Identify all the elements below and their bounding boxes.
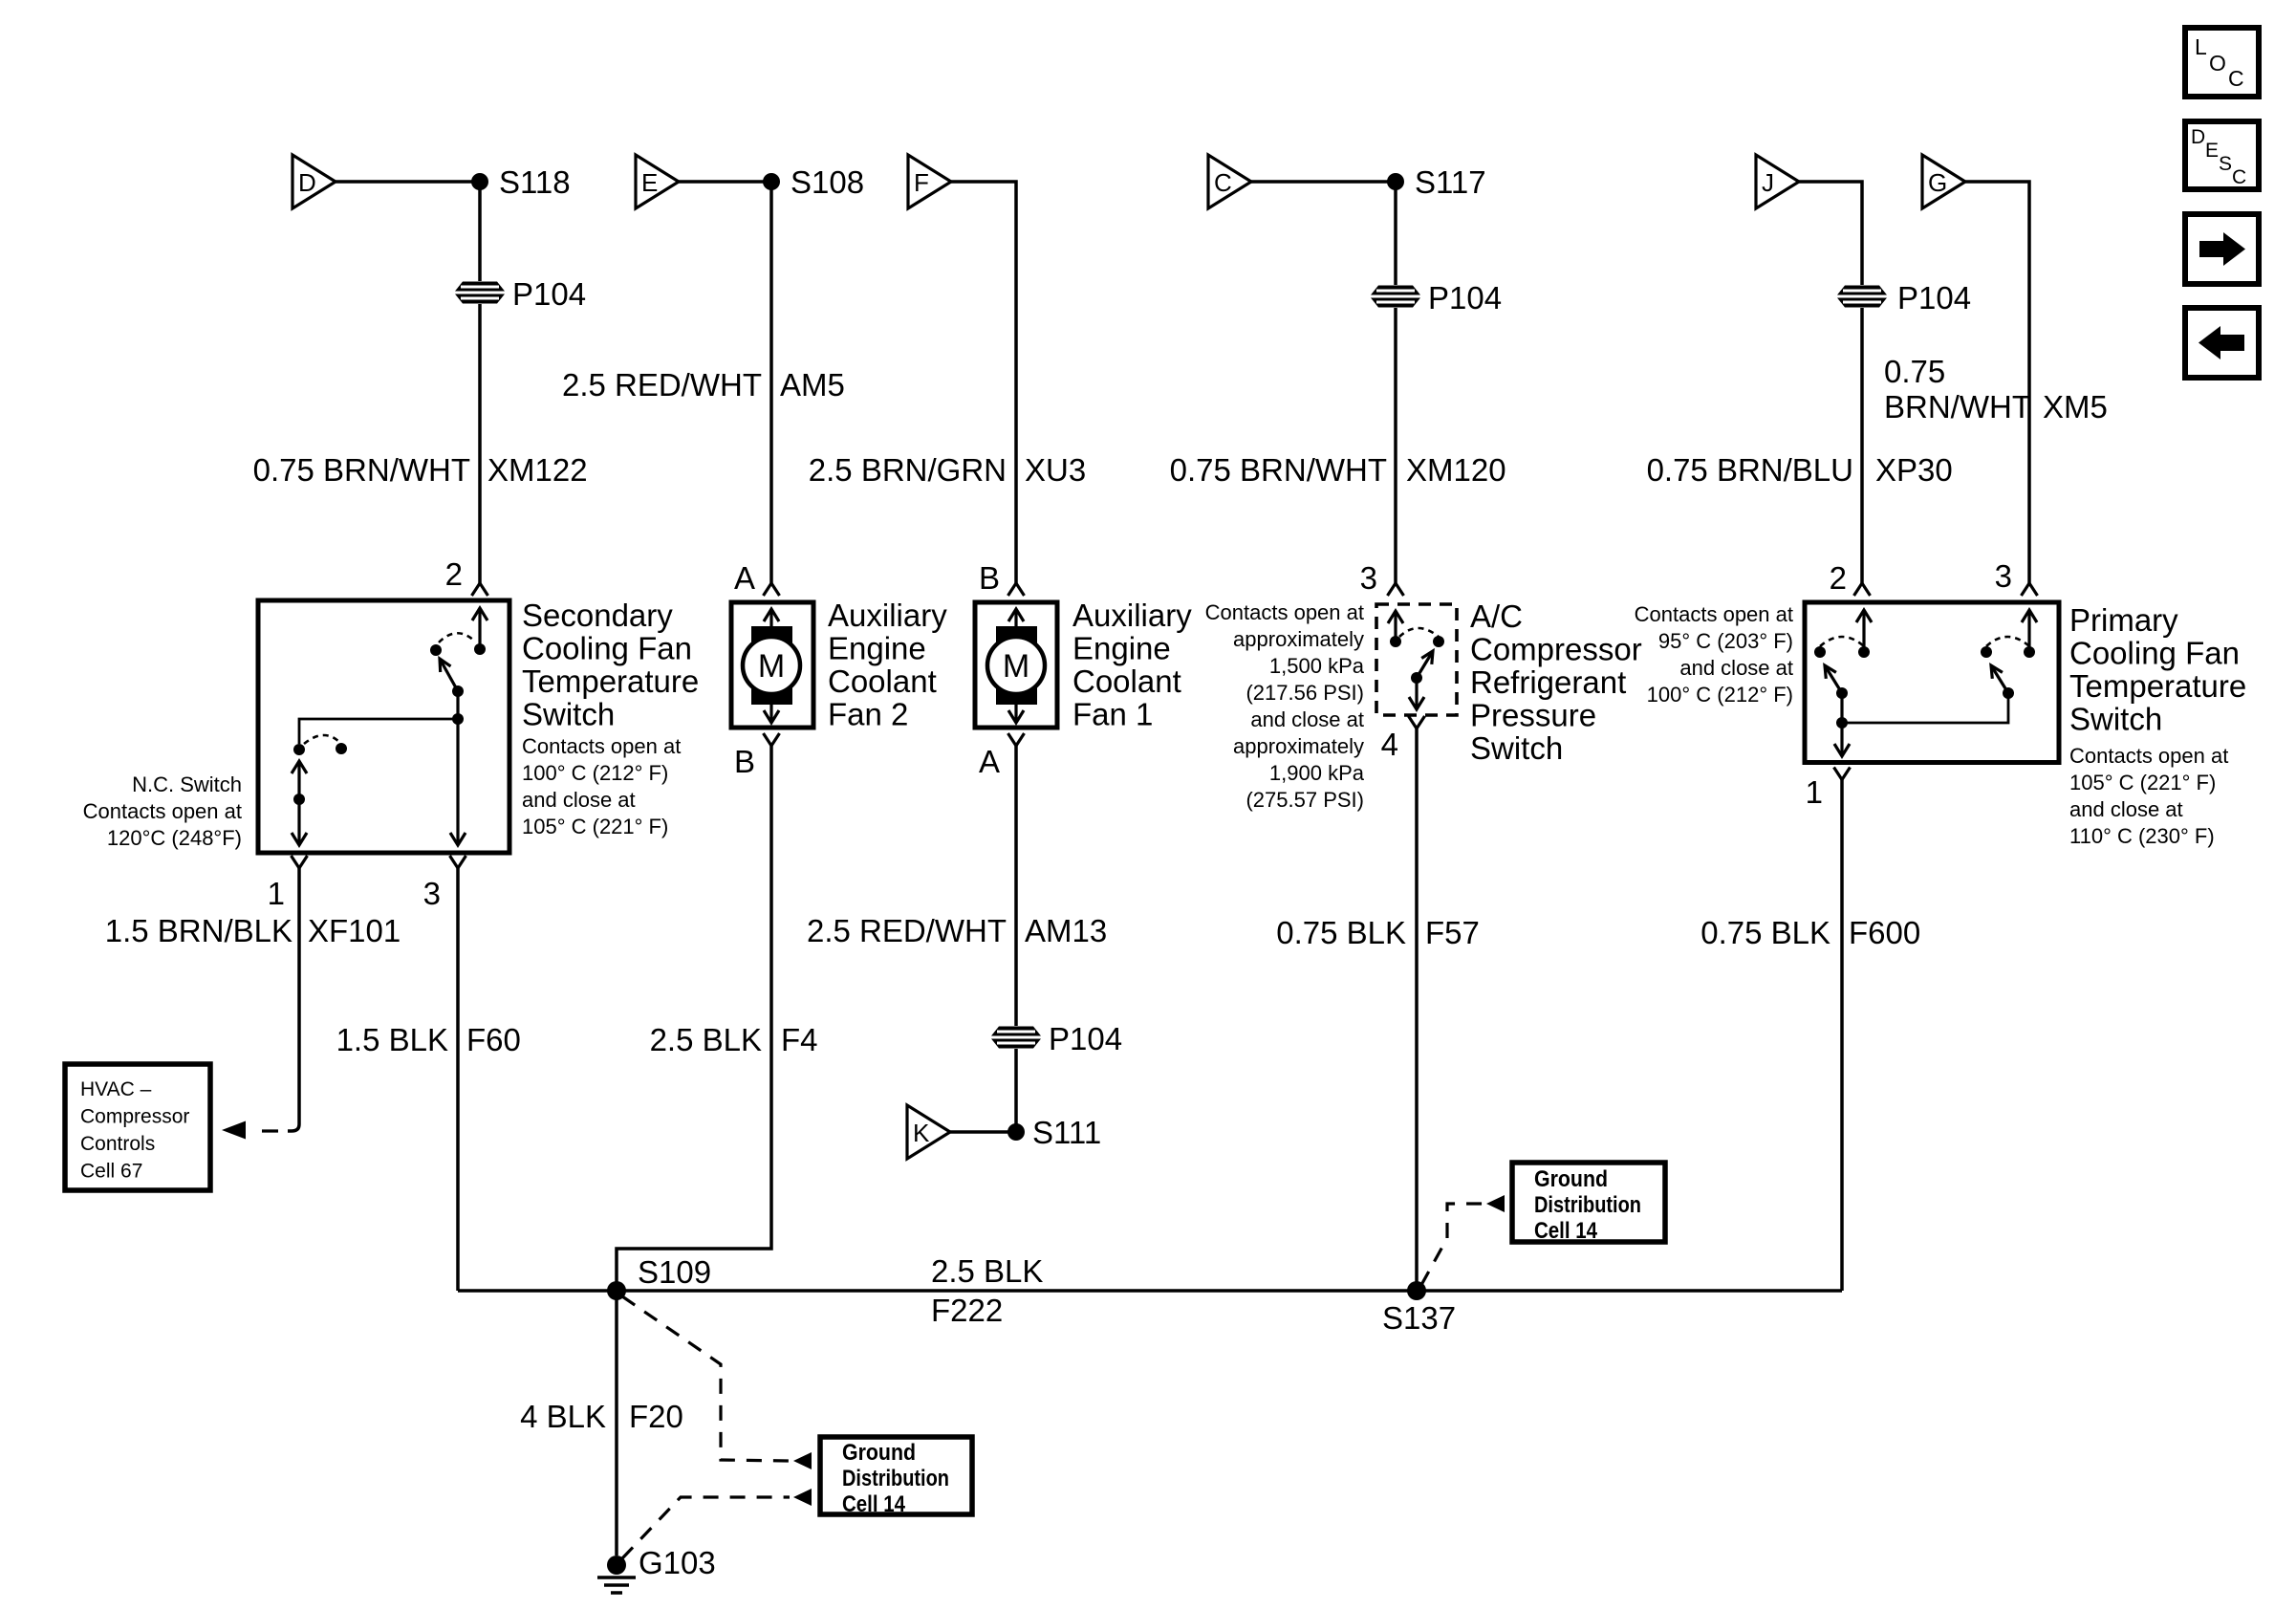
- left dashed travel arc: [1820, 637, 1864, 646]
- motor up arrow: [769, 609, 772, 629]
- left arrow nav box: [2185, 308, 2259, 378]
- svg-text:O: O: [2209, 51, 2226, 76]
- svg-text:0.75 BLK: 0.75 BLK: [1700, 915, 1830, 950]
- svg-text:Contacts open at: Contacts open at: [83, 799, 242, 823]
- svg-text:Cell 14: Cell 14: [842, 1491, 906, 1517]
- N.C. arm down arrow to pin 1: [297, 799, 300, 845]
- pin A terminal fork: [764, 583, 780, 596]
- svg-text:120°C (248°F): 120°C (248°F): [107, 826, 242, 850]
- arm pivot dot: [452, 685, 464, 697]
- svg-text:approximately: approximately: [1233, 734, 1364, 758]
- svg-text:0.75 BRN/WHT: 0.75 BRN/WHT: [253, 452, 470, 488]
- N.C. fixed contact dot: [293, 744, 305, 755]
- left arm pivot dot: [1836, 687, 1848, 699]
- svg-text:Controls: Controls: [80, 1133, 155, 1155]
- svg-text:S111: S111: [1032, 1115, 1101, 1150]
- svg-text:2.5 BLK: 2.5 BLK: [931, 1253, 1043, 1289]
- svg-text:E: E: [2205, 140, 2219, 162]
- svg-text:AM5: AM5: [780, 367, 845, 402]
- svg-text:Refrigerant: Refrigerant: [1470, 664, 1626, 700]
- svg-text:approximately: approximately: [1233, 627, 1364, 651]
- ground G103: [607, 1556, 626, 1575]
- switch fixed contact arrow to pin 2: [478, 608, 481, 649]
- wire P104 to S111: [1014, 1049, 1018, 1132]
- wire from K to S111: [950, 1130, 1016, 1134]
- svg-text:and close at: and close at: [1250, 707, 1364, 731]
- svg-text:B: B: [979, 560, 1000, 596]
- svg-text:Engine: Engine: [1072, 631, 1171, 666]
- svg-text:F4: F4: [781, 1022, 818, 1057]
- wire S118 to P104: [478, 182, 482, 281]
- svg-text:1,900 kPa: 1,900 kPa: [1269, 761, 1365, 785]
- left contact dots: [1814, 646, 1826, 658]
- svg-text:Distribution: Distribution: [1534, 1192, 1641, 1218]
- svg-text:1.5 BLK: 1.5 BLK: [336, 1022, 448, 1057]
- connector triangle G: [1922, 155, 1965, 208]
- fan 1 pin A fork: [1008, 733, 1025, 746]
- connector triangle E: [636, 155, 679, 208]
- svg-text:Temperature: Temperature: [2069, 668, 2246, 704]
- svg-text:Coolant: Coolant: [1072, 664, 1181, 699]
- primary cooling fan temperature switch box: [1805, 602, 2059, 763]
- pin 1 terminal fork: [1834, 768, 1851, 780]
- svg-text:P104: P104: [1897, 280, 1971, 315]
- svg-text:A: A: [979, 744, 1000, 779]
- connector triangle F: [908, 155, 951, 208]
- wire XM122: P104 to switch pin 2: [478, 304, 482, 583]
- svg-text:C: C: [1214, 168, 1232, 197]
- svg-text:F222: F222: [931, 1293, 1003, 1328]
- fan 2 pin B fork: [764, 733, 780, 746]
- svg-text:Contacts open at: Contacts open at: [522, 734, 681, 758]
- svg-text:S137: S137: [1382, 1300, 1456, 1336]
- svg-text:Cooling Fan: Cooling Fan: [522, 631, 692, 666]
- connector triangle K: [907, 1105, 950, 1159]
- DESC nav box: [2185, 121, 2259, 189]
- svg-text:1.5 BRN/BLK: 1.5 BRN/BLK: [105, 913, 292, 948]
- HVAC Compressor Controls reference box: [65, 1064, 210, 1190]
- pin 3 terminal fork: [1388, 583, 1404, 596]
- splice S137: [1407, 1281, 1426, 1300]
- dashed branch G103 to ground distribution: [622, 1497, 790, 1558]
- svg-text:Ground: Ground: [842, 1440, 916, 1466]
- contact dot right (pin2 side): [474, 643, 486, 655]
- wire S117 to P104: [1394, 182, 1397, 285]
- svg-text:D: D: [2191, 126, 2205, 148]
- left fixed contact arrow to pin 2: [1862, 610, 1865, 652]
- motor up arrow: [1014, 609, 1017, 629]
- wire F4: fan 2 pin B down to S109: [617, 746, 771, 1291]
- wire XF101: pin 1 down: [288, 868, 299, 1131]
- wire F20: S109 down to G103: [615, 1291, 618, 1556]
- svg-text:110° C (230° F): 110° C (230° F): [2069, 824, 2215, 848]
- svg-text:G: G: [1928, 168, 1947, 197]
- svg-text:Compressor: Compressor: [1470, 632, 1642, 667]
- ground bus wire F222: [458, 1289, 1842, 1293]
- svg-text:XM120: XM120: [1406, 452, 1506, 488]
- inline connector P104 (col 1): [455, 282, 505, 304]
- dashed link to HVAC reference: [262, 1129, 278, 1132]
- auxiliary engine coolant fan 1 motor box: [975, 602, 1057, 728]
- splice S111: [1007, 1123, 1025, 1141]
- svg-text:105° C (221° F): 105° C (221° F): [2069, 771, 2216, 794]
- svg-text:N.C. Switch: N.C. Switch: [132, 772, 242, 796]
- internal link to right arm: [1842, 693, 2008, 723]
- wire AM13: fan 1 pin A down: [1014, 746, 1018, 1026]
- svg-text:3: 3: [423, 876, 441, 911]
- svg-text:Auxiliary: Auxiliary: [828, 598, 947, 633]
- wire F57: pin 4 down to S137: [1415, 729, 1419, 1291]
- svg-text:and close at: and close at: [1679, 656, 1793, 680]
- svg-text:2: 2: [1830, 560, 1847, 596]
- reference arrow (S137): [1486, 1195, 1505, 1212]
- svg-text:Switch: Switch: [522, 697, 615, 732]
- svg-text:E: E: [641, 168, 658, 197]
- right arm pivot dot: [2003, 687, 2014, 699]
- wire XP30: P104 to primary switch pin 2: [1860, 308, 1864, 583]
- svg-text:G103: G103: [639, 1545, 716, 1580]
- motor down arrow: [1014, 705, 1017, 723]
- svg-text:2.5 RED/WHT: 2.5 RED/WHT: [562, 367, 762, 402]
- reference arrow to HVAC box: [222, 1121, 246, 1140]
- svg-text:100° C (212° F): 100° C (212° F): [522, 761, 668, 785]
- svg-text:C: C: [2232, 166, 2246, 188]
- svg-text:Fan 1: Fan 1: [1072, 697, 1153, 732]
- svg-text:S118: S118: [499, 164, 571, 200]
- reference arrow (upper): [793, 1452, 812, 1469]
- inline connector P104 (col 3): [991, 1027, 1041, 1049]
- svg-text:and close at: and close at: [522, 788, 636, 812]
- svg-text:P104: P104: [512, 276, 586, 312]
- dashed travel arc: [1399, 628, 1439, 637]
- svg-text:C: C: [2228, 66, 2244, 91]
- svg-text:F600: F600: [1849, 915, 1920, 950]
- svg-text:XP30: XP30: [1875, 452, 1953, 488]
- splice S109: [607, 1281, 626, 1300]
- svg-text:2.5 RED/WHT: 2.5 RED/WHT: [807, 913, 1007, 948]
- svg-text:F60: F60: [466, 1022, 521, 1057]
- svg-text:4 BLK: 4 BLK: [520, 1399, 606, 1434]
- svg-text:XM122: XM122: [487, 452, 588, 488]
- svg-text:2: 2: [445, 556, 463, 592]
- svg-text:BRN/WHT: BRN/WHT: [1884, 389, 2031, 424]
- svg-text:Distribution: Distribution: [842, 1466, 949, 1491]
- splice S118: [471, 173, 488, 190]
- svg-text:0.75 BLK: 0.75 BLK: [1276, 915, 1406, 950]
- wire F600: pin 1 down to bus: [1840, 780, 1844, 1292]
- svg-text:A/C: A/C: [1470, 598, 1523, 634]
- dashed travel arc (pin2 side): [439, 633, 475, 642]
- arm pivot dot: [1411, 672, 1422, 684]
- pin 3 terminal fork: [450, 856, 466, 868]
- svg-text:1: 1: [268, 876, 285, 911]
- left switch arm: [1825, 665, 1842, 693]
- svg-text:and close at: and close at: [2069, 797, 2183, 821]
- svg-text:2.5 BLK: 2.5 BLK: [650, 1022, 762, 1057]
- svg-text:M: M: [758, 648, 785, 685]
- svg-text:3: 3: [1360, 560, 1377, 596]
- svg-text:D: D: [298, 168, 316, 197]
- right arrow nav box: [2185, 214, 2259, 284]
- svg-text:0.75 BRN/WHT: 0.75 BRN/WHT: [1170, 452, 1387, 488]
- svg-text:95° C (203° F): 95° C (203° F): [1658, 629, 1793, 653]
- down arrow to pin 1: [1840, 723, 1843, 756]
- svg-text:0.75 BRN/BLU: 0.75 BRN/BLU: [1647, 452, 1853, 488]
- svg-text:HVAC –: HVAC –: [80, 1078, 152, 1100]
- splice S108: [763, 173, 780, 190]
- svg-text:F: F: [914, 168, 929, 197]
- svg-text:Contacts open at: Contacts open at: [2069, 744, 2228, 768]
- auxiliary engine coolant fan 2 motor box: [731, 602, 813, 728]
- N.C. arm mid dot: [293, 794, 305, 805]
- arm down arrow to pin 4: [1415, 678, 1418, 709]
- right switch arm: [1991, 665, 2008, 693]
- svg-text:S109: S109: [638, 1254, 711, 1290]
- motor down arrow: [769, 705, 772, 723]
- svg-text:Cooling Fan: Cooling Fan: [2069, 636, 2240, 671]
- svg-text:0.75: 0.75: [1884, 354, 1945, 389]
- dashed branch S109 to ground distribution: [622, 1296, 790, 1461]
- ground distribution reference box (lower): [820, 1437, 972, 1514]
- N.C. dashed travel arc: [304, 735, 341, 744]
- svg-text:105° C (221° F): 105° C (221° F): [522, 815, 668, 838]
- svg-text:A: A: [734, 560, 755, 596]
- svg-text:XU3: XU3: [1025, 452, 1086, 488]
- svg-text:100° C (212° F): 100° C (212° F): [1647, 683, 1793, 707]
- pin B terminal fork: [1008, 583, 1025, 596]
- svg-text:4: 4: [1381, 727, 1398, 762]
- internal link to N.C. contact: [299, 719, 458, 744]
- pin 1 terminal fork: [292, 856, 308, 868]
- svg-text:1: 1: [1806, 774, 1823, 810]
- svg-text:F20: F20: [629, 1399, 683, 1434]
- motor brushes: [996, 626, 1037, 645]
- svg-text:(275.57 PSI): (275.57 PSI): [1245, 788, 1364, 812]
- motor armature circle with M: [743, 637, 800, 694]
- connector triangle C: [1208, 155, 1251, 208]
- wire from D to S118: [336, 180, 480, 184]
- secondary cooling fan temperature switch box: [258, 600, 509, 853]
- wire from C to S117: [1251, 180, 1396, 184]
- motor armature circle with M: [987, 637, 1045, 694]
- svg-text:S: S: [2219, 153, 2232, 175]
- switch arm (pin2-pin3): [440, 659, 458, 691]
- LOC nav box: [2185, 28, 2259, 97]
- pin 4 terminal fork: [1409, 716, 1425, 729]
- reference arrow (lower): [793, 1489, 812, 1506]
- inline connector P104 (col 5): [1837, 286, 1887, 308]
- svg-text:Coolant: Coolant: [828, 664, 937, 699]
- svg-text:K: K: [913, 1119, 930, 1147]
- svg-text:Switch: Switch: [1470, 730, 1563, 766]
- wire from J down to P104: [1799, 182, 1862, 285]
- svg-text:2.5 BRN/GRN: 2.5 BRN/GRN: [809, 452, 1007, 488]
- wire AM5: S108 down to fan 2 pin A: [769, 182, 773, 583]
- svg-text:S108: S108: [791, 164, 864, 200]
- svg-text:AM13: AM13: [1025, 913, 1107, 948]
- svg-text:Contacts open at: Contacts open at: [1635, 602, 1793, 626]
- pin 3 terminal fork: [2022, 583, 2038, 596]
- contact dot left (pin2 side): [430, 644, 442, 656]
- svg-text:Primary: Primary: [2069, 602, 2178, 638]
- svg-text:Engine: Engine: [828, 631, 926, 666]
- svg-text:F57: F57: [1425, 915, 1480, 950]
- connector triangle J: [1756, 155, 1799, 208]
- svg-text:S117: S117: [1415, 164, 1486, 200]
- conductor to pin 3 with down arrow: [456, 719, 459, 845]
- arm vertical conductor with junction: [456, 691, 459, 719]
- svg-text:P104: P104: [1049, 1021, 1122, 1056]
- svg-text:XF101: XF101: [308, 913, 401, 948]
- right contact dots: [1981, 646, 1992, 658]
- pin 2 terminal fork: [1854, 583, 1871, 596]
- svg-text:L: L: [2195, 34, 2207, 59]
- ground distribution reference box (S137): [1512, 1163, 1665, 1242]
- wire from E to S108: [679, 180, 771, 184]
- svg-text:Switch: Switch: [2069, 702, 2162, 737]
- svg-text:Fan 2: Fan 2: [828, 697, 908, 732]
- contact dot right: [1433, 636, 1444, 647]
- wire XM120: P104 to pressure switch pin 3: [1394, 308, 1397, 583]
- motor brushes: [751, 626, 792, 645]
- pin 2 terminal fork: [472, 583, 488, 596]
- svg-text:1,500 kPa: 1,500 kPa: [1269, 654, 1365, 678]
- left conductor with junction dot: [1840, 693, 1843, 723]
- fixed contact arrow to pin 3: [1394, 611, 1397, 642]
- contact dot left: [1390, 636, 1401, 647]
- svg-text:Pressure: Pressure: [1470, 698, 1596, 733]
- svg-text:B: B: [734, 744, 755, 779]
- connector triangle D: [292, 155, 336, 208]
- wire F60: pin 3 down to ground bus: [456, 868, 460, 1291]
- svg-text:P104: P104: [1428, 280, 1502, 315]
- dashed branch S137 to ground distribution: [1421, 1204, 1483, 1285]
- svg-text:(217.56 PSI): (217.56 PSI): [1245, 681, 1364, 705]
- A/C compressor refrigerant pressure switch dashed box: [1376, 604, 1457, 715]
- svg-text:Cell 14: Cell 14: [1534, 1218, 1598, 1244]
- svg-text:Contacts open at: Contacts open at: [1205, 600, 1364, 624]
- svg-text:Compressor: Compressor: [80, 1106, 189, 1128]
- svg-text:Cell 67: Cell 67: [80, 1161, 142, 1183]
- splice S117: [1387, 173, 1404, 190]
- N.C. arc end dot: [336, 743, 347, 754]
- svg-text:Auxiliary: Auxiliary: [1072, 598, 1192, 633]
- svg-text:Secondary: Secondary: [522, 598, 673, 633]
- wire XM5: G to primary switch pin 3: [1965, 182, 2029, 583]
- wire from F to fan 1 pin B: [951, 182, 1016, 583]
- N.C. moving contact up arrow: [297, 761, 300, 799]
- switch arm: [1417, 651, 1433, 678]
- svg-text:M: M: [1003, 648, 1029, 685]
- svg-text:Ground: Ground: [1534, 1166, 1608, 1192]
- svg-text:Temperature: Temperature: [522, 664, 699, 699]
- right dashed travel arc: [1986, 637, 2029, 646]
- svg-text:3: 3: [1995, 558, 2012, 594]
- svg-text:XM5: XM5: [2043, 389, 2108, 424]
- svg-text:J: J: [1762, 168, 1774, 197]
- inline connector P104 (col 4): [1371, 286, 1420, 308]
- right fixed contact arrow to pin 3: [2027, 610, 2030, 652]
